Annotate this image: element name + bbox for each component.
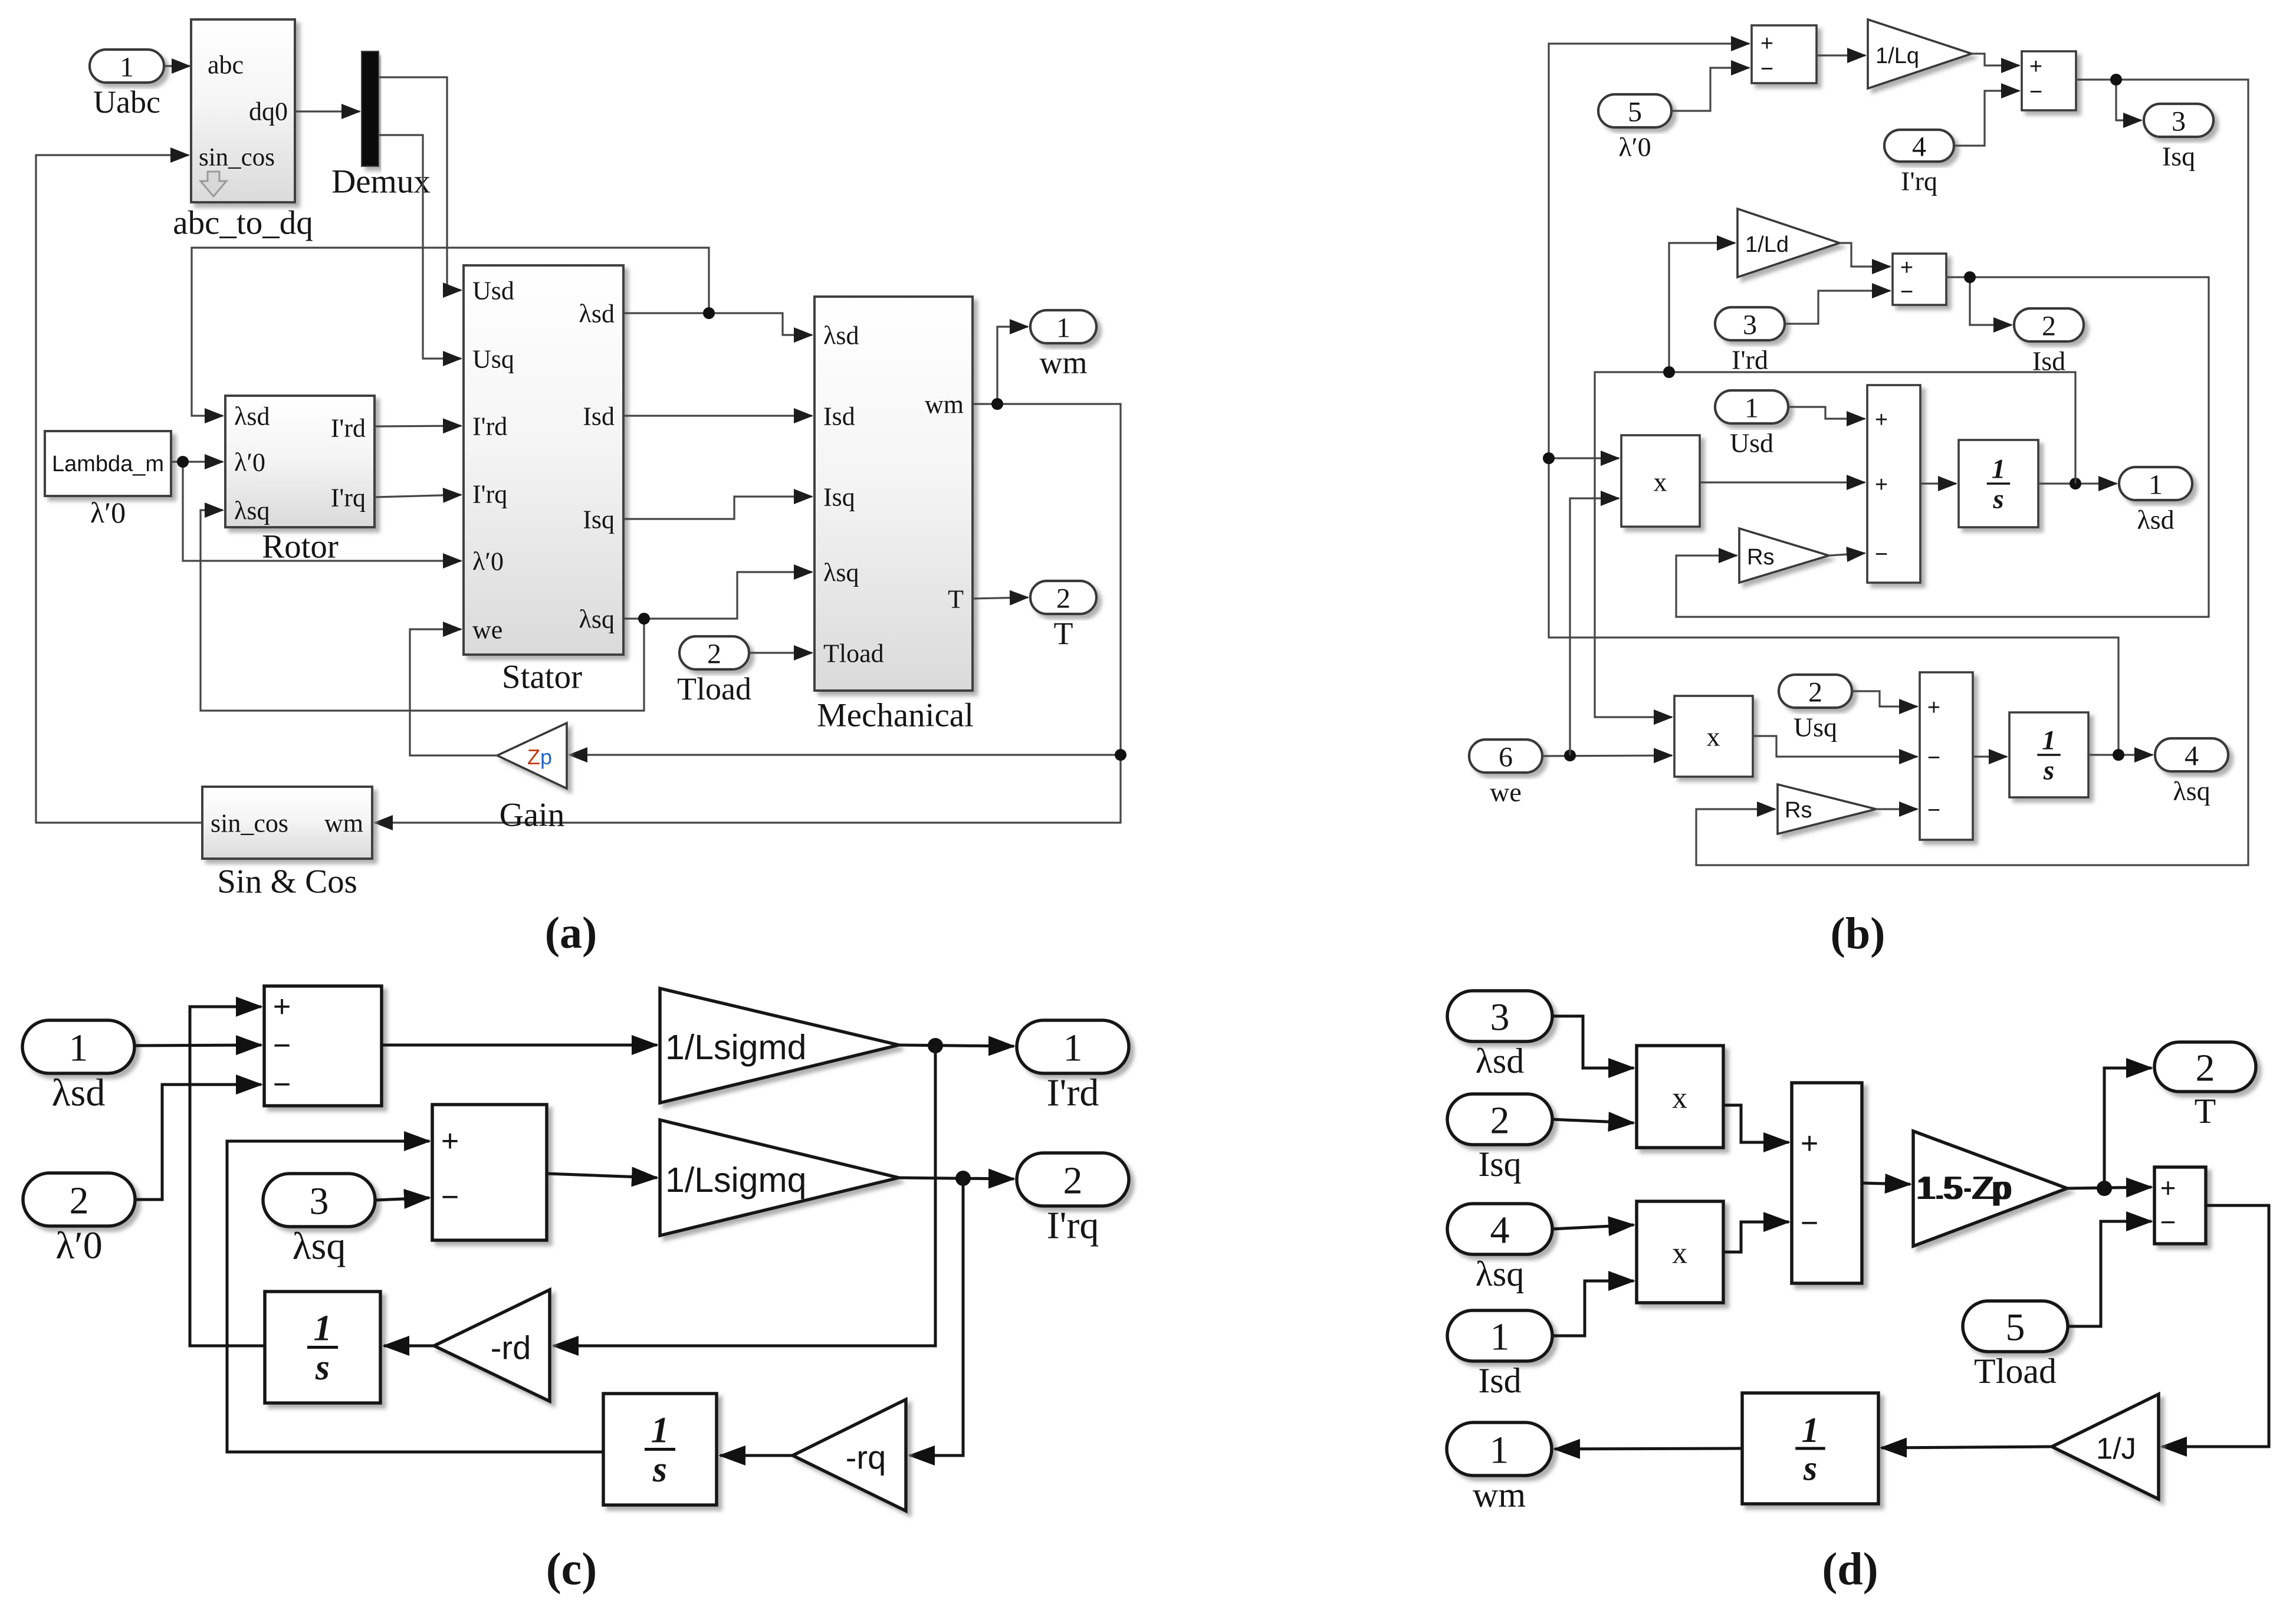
wire port1 to sum d c [134, 1045, 261, 1046]
output port 4 lambda_sq [2155, 738, 2228, 771]
svg-text:3: 3 [1743, 310, 1757, 341]
svg-text:s: s [652, 1450, 667, 1490]
svg-text:1: 1 [1745, 393, 1759, 424]
svg-text:−: − [1801, 1206, 1818, 1240]
input port 2 Usq [1779, 675, 1852, 708]
svg-text:Rs: Rs [1747, 545, 1774, 570]
sum block q-axis 3-port [1920, 672, 1973, 840]
gain Rs d-axis [1739, 528, 1829, 583]
wire port1 Usd to d sum [1788, 407, 1865, 419]
svg-text:(b): (b) [1831, 909, 1886, 958]
wire product bottom to sum [1723, 1222, 1789, 1252]
wire integrator to lambda_sd port [2038, 482, 2117, 484]
svg-text:x: x [1707, 722, 1720, 752]
wire sum q to 1/Lsigmq [547, 1174, 657, 1178]
svg-text:λsd: λsd [579, 300, 615, 328]
wire integrator q to lambda_sq port [2088, 754, 2153, 755]
wire I'rq feedback to -rq [909, 1178, 963, 1455]
wire integrator to port wm [1555, 1448, 1742, 1449]
product block top d [1637, 1046, 1723, 1148]
output port 1 wm d [1447, 1422, 1552, 1476]
wire I'rd feedback to -rd [553, 1046, 935, 1346]
input port 3 lambda_sd d [1447, 991, 1552, 1041]
sum block Isq [2022, 51, 2076, 110]
svg-text:+: + [1927, 695, 1940, 720]
svg-text:-rd: -rd [491, 1329, 531, 1366]
svg-text:Zp: Zp [527, 745, 552, 769]
product block q-axis [1674, 696, 1753, 777]
svg-text:1: 1 [1992, 454, 2006, 485]
input port 3 lambda_sq c [263, 1174, 375, 1227]
svg-text:Rs: Rs [1785, 798, 1812, 823]
integrator 1/s q c [603, 1394, 717, 1505]
product block bottom d [1637, 1201, 1723, 1303]
wire lambda_sd to product top [1552, 1016, 1634, 1068]
svg-text:3: 3 [2172, 106, 2186, 137]
wire lambda_sd loop to product q [1595, 372, 2075, 717]
svg-text:λ′0: λ′0 [1618, 132, 1651, 162]
svg-text:1: 1 [314, 1308, 332, 1348]
wire Rs q to q sum [1876, 808, 1917, 810]
svg-text:I'rq: I'rq [1047, 1204, 1099, 1247]
svg-text:wm: wm [324, 809, 363, 838]
svg-text:x: x [1654, 467, 1667, 497]
svg-text:Isd: Isd [823, 402, 855, 431]
svg-text:+: + [2029, 54, 2042, 79]
svg-text:−: − [273, 1067, 291, 1102]
junction lambda_sq vertical [1543, 452, 1555, 464]
wire -rd to integrator d [384, 1345, 434, 1348]
output port 1 lambda_sd [2119, 467, 2192, 500]
wire lambda_sq to product bottom [1552, 1225, 1634, 1229]
svg-text:1: 1 [1490, 1316, 1510, 1359]
svg-text:we: we [1490, 777, 1522, 807]
svg-text:−: − [1927, 798, 1940, 823]
input port 4 lambda_sq d [1447, 1204, 1552, 1254]
svg-text:1/J: 1/J [2096, 1432, 2136, 1466]
subsystem abc_to_dq [191, 19, 295, 202]
wire torque branch to port T [2104, 1068, 2152, 1188]
wire lambda_sd branch to 1/Ld [1669, 243, 1735, 372]
junction I'rq [955, 1171, 971, 1186]
svg-text:I'rq: I'rq [1901, 166, 1937, 196]
wire port5 to top sum minus [1671, 68, 1749, 111]
svg-text:−: − [441, 1180, 459, 1214]
wire product d to d sum [1700, 481, 1865, 483]
svg-text:1/Lsigmd: 1/Lsigmd [665, 1028, 806, 1067]
wire Isd branch to port2 [1970, 277, 2012, 325]
input port 3 I'rd [1715, 307, 1785, 340]
gain 1/Lsigmq [660, 1120, 899, 1236]
gain -rq [793, 1399, 906, 1511]
svg-text:-rq: -rq [846, 1439, 886, 1476]
svg-text:λsd: λsd [234, 402, 270, 431]
junction wm [991, 398, 1003, 410]
svg-text:Tload: Tload [1974, 1352, 2057, 1391]
svg-text:+: + [1801, 1126, 1818, 1161]
junction lambda_sq out [2113, 749, 2124, 761]
sum block acceleration [2154, 1167, 2206, 1244]
svg-text:x: x [1672, 1237, 1687, 1270]
wire lambda_sq feedback to Rotor [201, 510, 644, 711]
svg-text:+: + [1900, 255, 1913, 280]
wire Isd to product bottom [1552, 1281, 1634, 1336]
wire sum d to 1/Lsigmd [382, 1044, 657, 1047]
svg-text:λsd: λsd [2137, 505, 2174, 535]
wire we to product q [1542, 755, 1672, 756]
svg-text:T: T [948, 585, 964, 614]
wire dq0 to demux [295, 110, 360, 112]
wire Lambda_m to Rotor [171, 461, 223, 462]
wire sum to 1/J [2162, 1205, 2269, 1447]
wire sum to gain 1.5Zp [1862, 1183, 1910, 1184]
input port 2 Tload [679, 636, 749, 669]
svg-text:λsd: λsd [52, 1072, 106, 1115]
svg-text:Demux: Demux [331, 163, 431, 201]
svg-text:Isd: Isd [1478, 1361, 1521, 1400]
output port 3 Isq [2144, 104, 2213, 137]
wire sin_cos feedback to abc_to_dq [36, 155, 202, 823]
svg-text:λ′0: λ′0 [55, 1224, 102, 1267]
wire wm branch to output oval [997, 327, 1028, 404]
integrator 1/s d c [265, 1292, 380, 1403]
svg-text:λ′0: λ′0 [234, 448, 265, 477]
output port 1 I'rd c [1017, 1020, 1129, 1073]
svg-text:1: 1 [1056, 313, 1070, 344]
input port 1 Isd d [1447, 1310, 1552, 1361]
svg-text:x: x [1672, 1082, 1687, 1115]
svg-text:1/Ld: 1/Ld [1745, 232, 1789, 257]
wire 1/Ld to Isd sum [1840, 243, 1890, 267]
svg-text:Isq: Isq [583, 505, 615, 534]
wire lambda_sq branch to product1 [1549, 457, 1619, 459]
input port 2 Isq d [1447, 1094, 1552, 1145]
junction I'rd [928, 1038, 943, 1053]
wire Tload to sum [2068, 1221, 2152, 1326]
svg-text:λsq: λsq [293, 1225, 346, 1268]
svg-text:2: 2 [707, 639, 721, 670]
svg-text:Isq: Isq [2162, 142, 2195, 172]
input port 1 Uabc [90, 50, 164, 83]
svg-text:−: − [1927, 745, 1940, 770]
svg-text:abc: abc [208, 51, 244, 80]
svg-text:4: 4 [1490, 1209, 1510, 1252]
subsystem Stator [464, 265, 623, 655]
svg-text:Isq: Isq [823, 483, 855, 512]
svg-text:sin_cos: sin_cos [211, 809, 288, 838]
svg-text:4: 4 [2185, 741, 2199, 772]
svg-text:1: 1 [120, 52, 134, 83]
svg-text:1/Lsigmq: 1/Lsigmq [665, 1161, 806, 1200]
wire port3 I'rd to Isd sum [1785, 291, 1890, 324]
svg-text:λsq: λsq [579, 605, 615, 634]
svg-text:+: + [2160, 1172, 2176, 1203]
gain 1/Lsigmd [660, 988, 899, 1103]
svg-text:1: 1 [2042, 725, 2056, 756]
wire port2 Usq to q sum [1852, 691, 1917, 707]
wire lambda_sd feedback to Rotor [192, 248, 709, 416]
wire we branch to product d [1570, 498, 1619, 755]
svg-text:abc_to_dq: abc_to_dq [173, 205, 313, 242]
wire demux out1 to Stator Usd [378, 77, 461, 290]
wire port2 to sum d c [135, 1085, 261, 1200]
svg-text:λsd: λsd [823, 321, 859, 350]
svg-text:Usd: Usd [1730, 428, 1773, 458]
svg-text:+: + [273, 990, 291, 1024]
svg-text:2: 2 [70, 1179, 89, 1223]
sum block d-axis c [264, 986, 382, 1106]
svg-text:−: − [1875, 542, 1888, 567]
wire Isq branch to port3 [2116, 80, 2141, 120]
svg-text:dq0: dq0 [249, 97, 288, 126]
svg-text:Gain: Gain [500, 797, 565, 834]
wire lambda_sq loop to top sum [1549, 44, 2118, 755]
wire 1/J to integrator [1881, 1447, 2052, 1448]
wire Isq sum output and feedback to Rs q [1696, 80, 2248, 865]
junction lambda_sd [703, 307, 715, 319]
sum block torque [1792, 1083, 1862, 1283]
svg-text:Usq: Usq [1794, 712, 1837, 742]
svg-text:Stator: Stator [502, 659, 582, 696]
svg-text:2: 2 [1490, 1099, 1510, 1142]
wire 1/Lsigmd to port1 out [899, 1045, 1014, 1046]
output port 2 I'rq c [1017, 1153, 1129, 1206]
input port 2 lambda_0 c [23, 1173, 135, 1226]
junction Isd [1964, 271, 1976, 283]
junction lambda_sq [638, 613, 650, 625]
gain -rd [434, 1290, 550, 1401]
sum block Isd [1893, 254, 1946, 305]
output port 2 T [1030, 581, 1096, 614]
svg-text:Isd: Isd [583, 402, 615, 431]
svg-text:sin_cos: sin_cos [199, 144, 275, 172]
svg-text:λ′0: λ′0 [90, 496, 126, 529]
svg-text:Lambda_m: Lambda_m [52, 452, 164, 477]
demux [362, 52, 378, 166]
integrator 1/s q-axis [2009, 712, 2088, 797]
wire Rotor I'rq to Stator [375, 495, 461, 497]
svg-text:Rotor: Rotor [262, 528, 339, 566]
wire d sum to integrator [1920, 482, 1956, 484]
svg-text:Sin & Cos: Sin & Cos [217, 863, 357, 901]
svg-text:λsd: λsd [1476, 1041, 1524, 1080]
wire 1/Lq to Isq sum [1972, 54, 2019, 65]
svg-text:2: 2 [1056, 583, 1070, 615]
input port 1 Usd [1715, 390, 1788, 423]
svg-text:λsq: λsq [234, 497, 270, 525]
junction Isq [2110, 74, 2122, 86]
integrator 1/s d-axis [1959, 440, 2038, 527]
svg-text:−: − [2160, 1207, 2176, 1237]
junction wm to gain [1115, 749, 1126, 761]
svg-text:Tload: Tload [823, 639, 884, 668]
wire Rotor I'rd to Stator [375, 426, 461, 426]
svg-text:(c): (c) [546, 1543, 597, 1595]
block Lambda_m constant [45, 431, 171, 496]
svg-text:1: 1 [1490, 1429, 1509, 1472]
gain 1/Lq [1868, 19, 1972, 88]
svg-text:6: 6 [1499, 742, 1513, 773]
product block d-axis [1621, 435, 1700, 527]
junction lambda_sd out [2070, 478, 2081, 489]
junction we [1564, 750, 1576, 761]
svg-text:2: 2 [1808, 677, 1822, 708]
wire Uabc to abc_to_dq [164, 65, 190, 67]
sum block q-axis c [432, 1105, 547, 1240]
svg-text:s: s [1992, 484, 2003, 514]
svg-text:+: + [1760, 31, 1773, 56]
svg-text:s: s [315, 1348, 330, 1388]
subsystem Rotor [225, 396, 375, 527]
svg-text:we: we [472, 616, 502, 645]
svg-text:λ′0: λ′0 [472, 547, 504, 576]
wire 1/Lsigmq to port2 out [899, 1178, 1014, 1179]
svg-text:Mechanical: Mechanical [817, 697, 974, 734]
svg-text:I'rq: I'rq [472, 480, 507, 509]
svg-text:s: s [1803, 1449, 1817, 1488]
svg-text:Tload: Tload [677, 671, 751, 707]
svg-text:s: s [2043, 755, 2054, 786]
wire top sum to 1/Lq [1817, 54, 1865, 56]
svg-text:wm: wm [1473, 1476, 1526, 1514]
wire integrator q feedback to sum q [227, 1141, 603, 1452]
input port 4 I'rq [1884, 130, 1954, 162]
wire wm branch to Gain Zp [569, 754, 1121, 755]
svg-text:T: T [2195, 1092, 2216, 1131]
svg-text:1: 1 [2149, 469, 2163, 501]
wire q sum to integrator [1973, 755, 2007, 757]
wire lambda_0 to Stator [183, 462, 461, 561]
gain 1/Ld [1737, 209, 1840, 277]
svg-text:Usq: Usq [472, 345, 514, 374]
svg-text:2: 2 [1063, 1159, 1083, 1202]
wire port3 to sum q c [375, 1198, 429, 1200]
svg-text:I'rd: I'rd [331, 414, 366, 443]
gain Zp triangle [497, 723, 567, 788]
svg-text:I'rd: I'rd [1047, 1072, 1099, 1115]
svg-text:I'rd: I'rd [1732, 345, 1768, 375]
wire demux out2 to Stator Usq [378, 135, 461, 359]
wire Zp out to Stator we [410, 629, 497, 755]
wire Stator Isd to Mechanical [623, 415, 812, 416]
wire -rq to integrator q [720, 1454, 793, 1457]
svg-text:2: 2 [2042, 311, 2056, 342]
svg-text:(a): (a) [545, 908, 597, 958]
wire Stator lambda_sq to Mechanical [623, 572, 812, 619]
wire Isd sum output and feedback to Rs d [1676, 277, 2209, 617]
wire Tload to Mechanical [749, 652, 812, 653]
junction lambda_sd to 1/Ld [1663, 366, 1675, 378]
svg-text:λsq: λsq [1476, 1254, 1524, 1293]
wire gain out to T and sum [2067, 1187, 2152, 1188]
svg-text:(d): (d) [1822, 1543, 1878, 1595]
svg-text:1: 1 [1802, 1411, 1819, 1450]
svg-text:+: + [1875, 408, 1888, 432]
input port 6 we [1469, 740, 1542, 773]
subsystem Sin and Cos [202, 787, 372, 859]
svg-text:−: − [2029, 80, 2042, 104]
subsystem Mechanical [814, 297, 973, 691]
svg-text:λsq: λsq [2173, 776, 2210, 806]
svg-text:I'rq: I'rq [331, 484, 366, 512]
sum block q-axis top [1752, 25, 1817, 83]
svg-text:4: 4 [1912, 132, 1926, 163]
wire product q to q sum [1753, 736, 1917, 757]
svg-text:+: + [441, 1124, 459, 1158]
wire Stator Isq to Mechanical [623, 497, 812, 519]
sum block d-axis 3-port [1867, 385, 1920, 583]
svg-text:+: + [1875, 472, 1888, 497]
svg-text:T: T [1054, 616, 1073, 651]
output port 2 T d [2154, 1042, 2256, 1092]
wire Isq to product top [1552, 1119, 1634, 1123]
svg-text:I'rd: I'rd [472, 412, 507, 441]
junction torque [2097, 1181, 2112, 1196]
svg-text:2: 2 [2196, 1047, 2215, 1090]
output port 1 wm [1030, 310, 1096, 343]
svg-text:wm: wm [1040, 345, 1088, 380]
gain Rs q-axis [1778, 784, 1876, 834]
wire port4 I'rq to Isq sum [1954, 91, 2019, 146]
svg-text:1: 1 [1063, 1027, 1083, 1070]
junction lambda_0 [177, 456, 189, 468]
svg-text:−: − [1900, 280, 1913, 304]
input port 5 lambda_0 [1598, 94, 1671, 127]
wire Stator lambda_sd to Mechanical [623, 313, 812, 335]
svg-text:1/Lq: 1/Lq [1875, 44, 1919, 68]
svg-text:1.5·Zp: 1.5·Zp [1917, 1169, 2011, 1206]
gain 1/J [2052, 1394, 2159, 1499]
svg-text:5: 5 [1628, 97, 1642, 128]
svg-text:Isq: Isq [1478, 1145, 1521, 1184]
svg-text:1: 1 [651, 1410, 669, 1450]
svg-text:1: 1 [69, 1027, 88, 1070]
wire Mechanical T to port [973, 597, 1028, 599]
wire product top to sum [1723, 1105, 1789, 1142]
svg-text:3: 3 [310, 1180, 329, 1223]
wire integrator d feedback to sum d [190, 1007, 265, 1346]
gain 1.5 Zp [1913, 1131, 2067, 1246]
wire Rs d to d sum [1829, 553, 1865, 556]
svg-text:−: − [1760, 57, 1773, 81]
wire Mechanical wm to port and feedback [375, 404, 1121, 823]
svg-text:5: 5 [2006, 1306, 2025, 1349]
svg-text:λsq: λsq [823, 558, 859, 587]
input port 5 Tload d [1963, 1301, 2068, 1352]
svg-text:3: 3 [1490, 996, 1510, 1039]
integrator 1/s wm [1742, 1393, 1878, 1504]
svg-text:−: − [273, 1029, 291, 1063]
svg-text:wm: wm [925, 390, 964, 419]
svg-text:Uabc: Uabc [93, 84, 160, 120]
svg-text:Usd: Usd [472, 277, 514, 305]
input port 1 lambda_sd c [22, 1020, 134, 1073]
output port 2 Isd [2014, 308, 2084, 341]
